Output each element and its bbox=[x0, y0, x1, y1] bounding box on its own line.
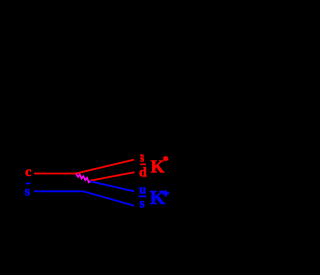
overline of left s-bar bbox=[26, 183, 31, 185]
svg-text:s: s bbox=[139, 196, 144, 211]
star superscript of K* bbox=[163, 156, 168, 161]
wire: red c quark line (horizontal) bbox=[34, 173, 76, 175]
svg-text:d: d bbox=[139, 166, 147, 181]
svg-text:K: K bbox=[150, 187, 166, 209]
wire: blue s-bar quark line (horizontal then bending down) bbox=[34, 191, 134, 205]
svg-text:c: c bbox=[25, 165, 31, 180]
svg-text:u: u bbox=[139, 182, 146, 197]
wire: red upper diagonal line (c to s-bar of K*) bbox=[76, 160, 134, 174]
wire: red lower diagonal line (V2 to d-bar of K*) bbox=[90, 172, 134, 180]
svg-text:s: s bbox=[25, 183, 30, 198]
W boson: magenta zigzag from vertex V1 to vertex V2 bbox=[76, 174, 90, 183]
plus superscript of K+ bbox=[162, 190, 169, 197]
wire: blue upper diagonal line (V2 to u of K+) bbox=[91, 181, 135, 191]
svg-text:K: K bbox=[151, 157, 165, 177]
